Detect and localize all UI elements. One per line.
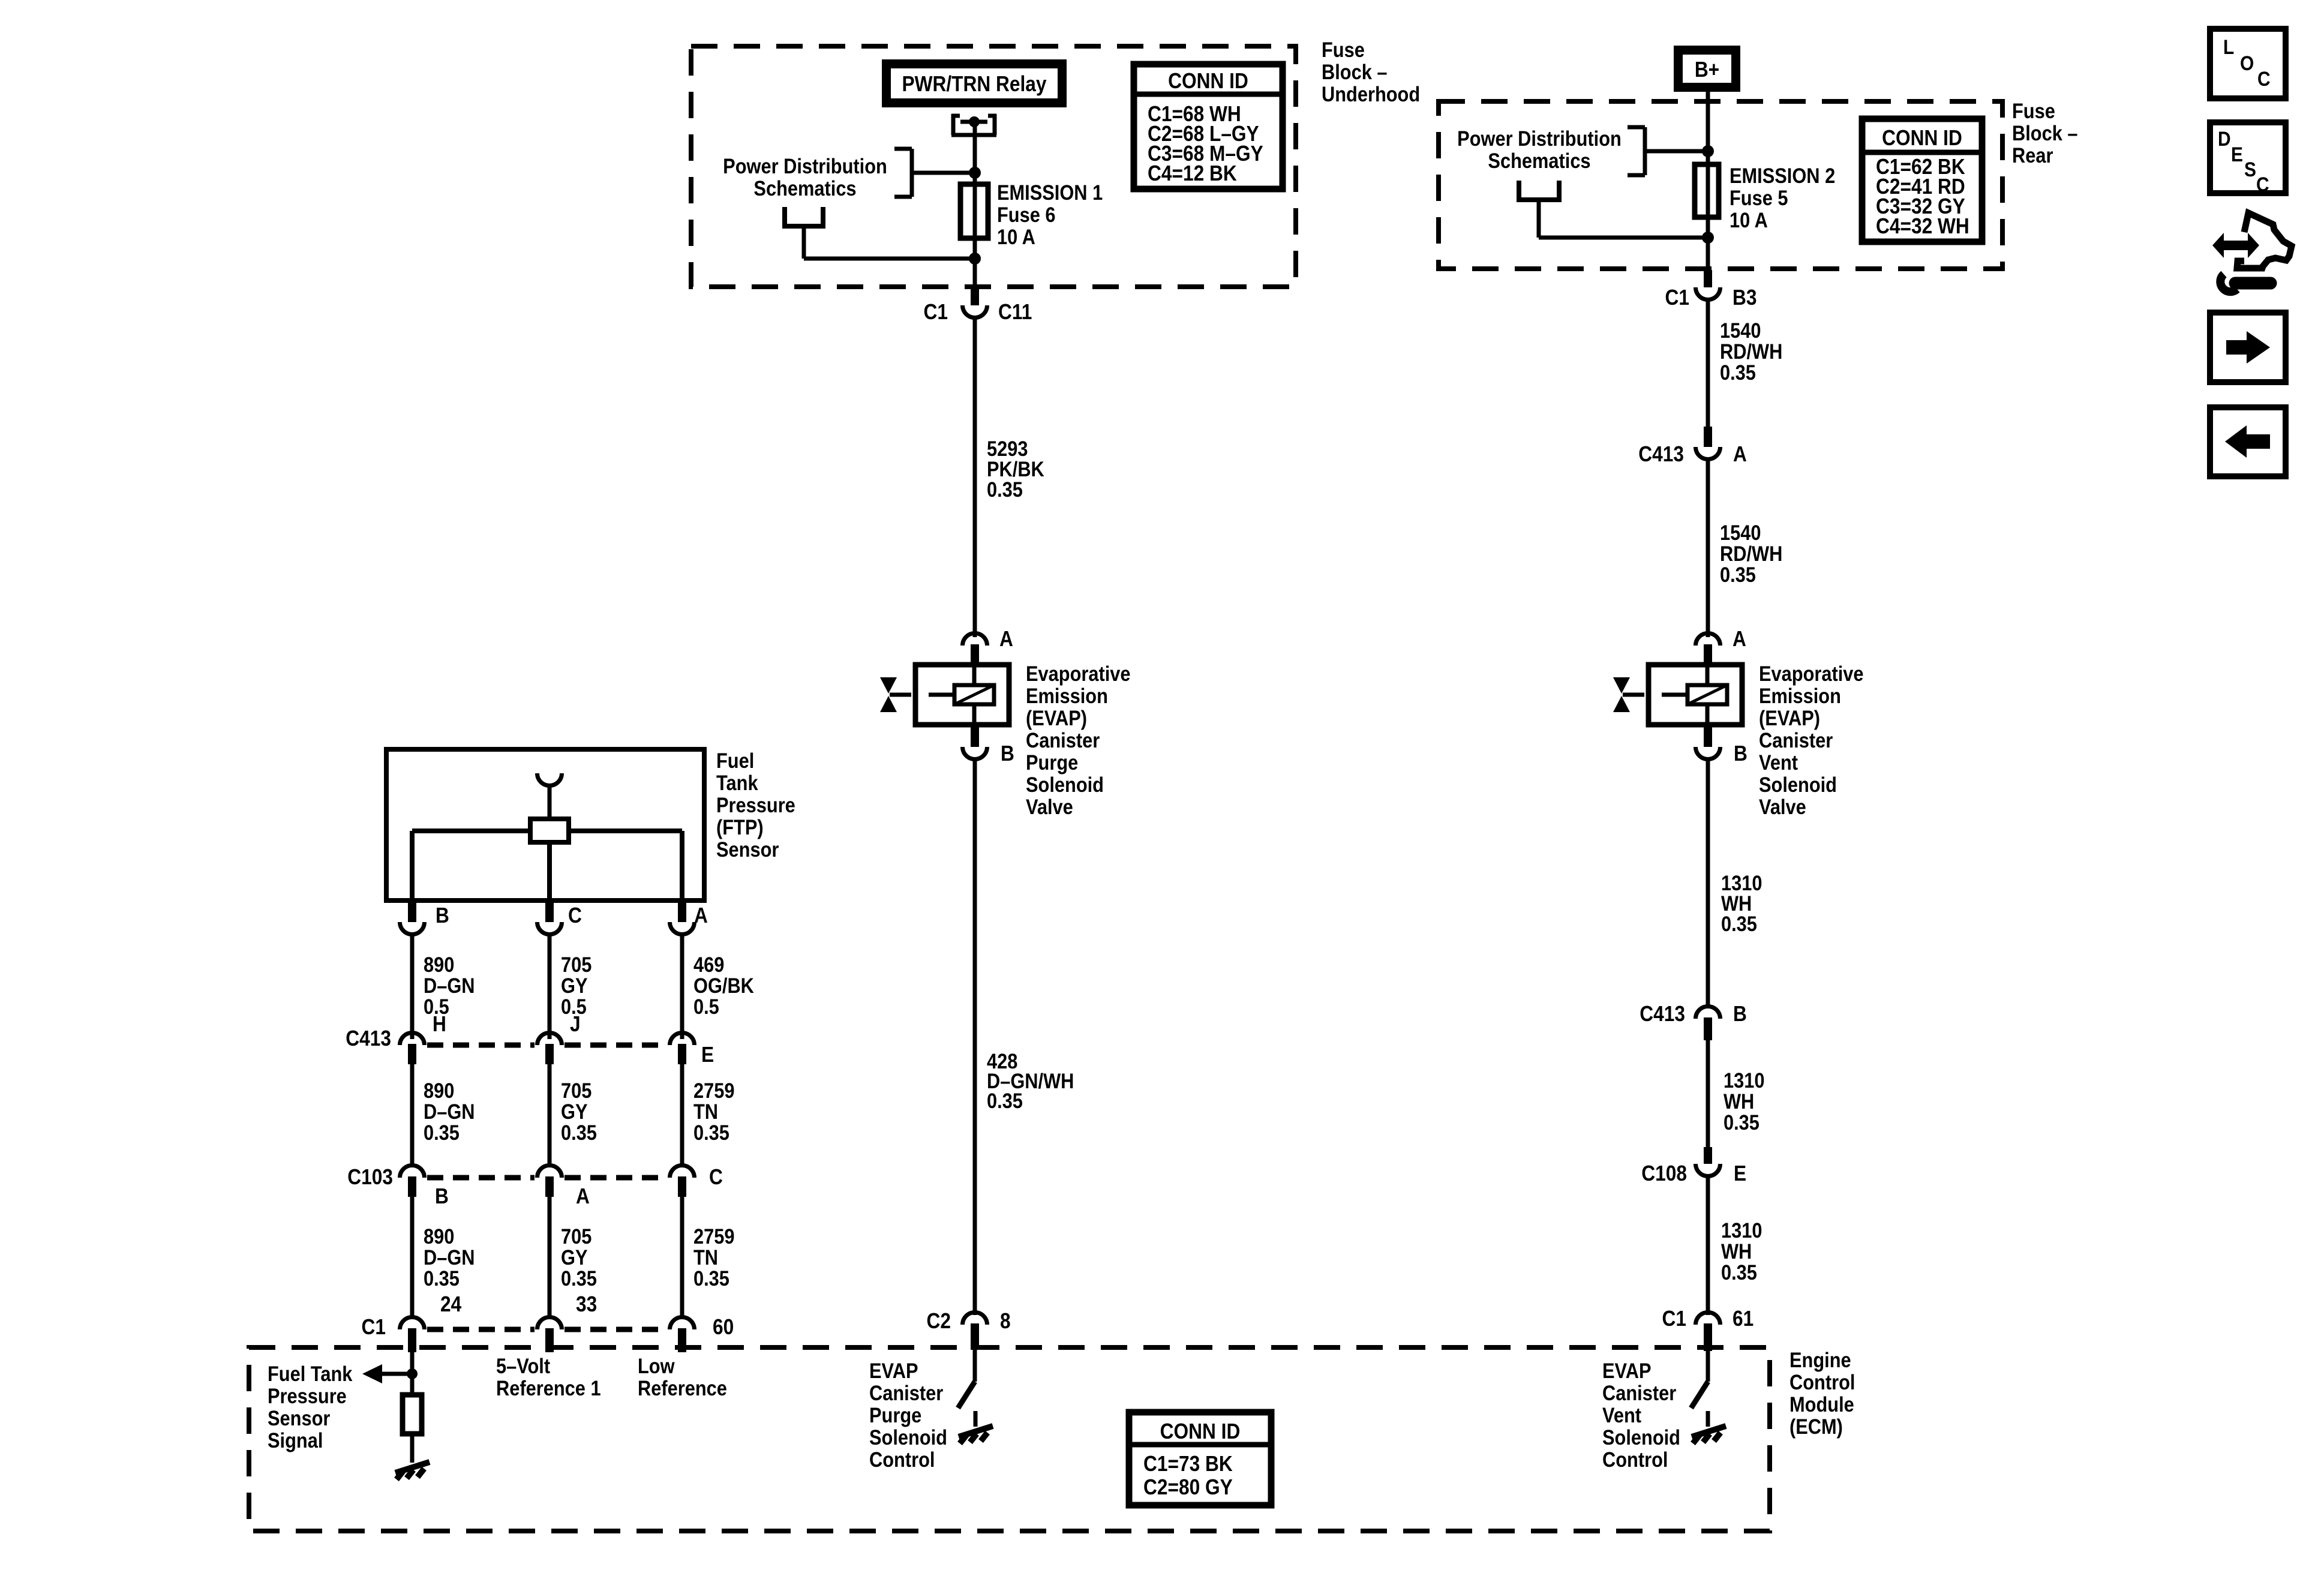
wire ftp C down [548,935,552,1039]
dashed link C103 row [427,1175,668,1181]
resistor in ecm [403,1395,422,1434]
wire H down [410,1064,415,1167]
connector C103 pin C [678,1176,686,1197]
fuse block - underhood dashed box [691,46,1296,287]
dashed link C413 row [427,1043,668,1048]
svg-text:C: C [2256,173,2269,196]
svg-text:C413: C413 [346,1026,391,1050]
svg-text:A: A [694,903,708,927]
svg-text:GY: GY [561,974,588,997]
svg-text:D–GN: D–GN [424,974,475,997]
switch vent control [1706,1350,1710,1382]
svg-text:WH: WH [1721,1239,1752,1263]
ftp internal connector arc [538,773,562,786]
svg-text:A: A [1733,442,1747,466]
svg-text:Valve: Valve [1759,795,1806,818]
connector C108/E [1704,1147,1712,1164]
svg-text:0.35: 0.35 [424,1266,460,1290]
svg-text:Low: Low [638,1354,675,1377]
svg-text:890: 890 [424,1079,454,1102]
svg-text:A: A [576,1184,590,1208]
svg-text:E: E [2231,143,2243,166]
svg-text:C: C [2257,67,2271,90]
svg-text:C: C [568,903,582,927]
ftp bridge right [569,828,682,833]
svg-text:C1: C1 [1662,1307,1686,1331]
connector C103 pin A [545,1176,554,1197]
svg-text:(FTP): (FTP) [716,815,764,839]
svg-text:Solenoid: Solenoid [1026,773,1104,796]
relay contact bracket [951,114,996,135]
svg-text:Vent: Vent [1759,751,1798,774]
svg-text:Pressure: Pressure [268,1384,347,1407]
signal arrow line [382,1372,412,1376]
EVAP vent solenoid valve box [1649,665,1742,725]
svg-text:Solenoid: Solenoid [1759,773,1837,796]
svg-text:O: O [2240,52,2254,74]
svg-text:890: 890 [424,953,454,976]
svg-text:B3: B3 [1733,286,1756,310]
svg-text:0.35: 0.35 [987,1089,1023,1112]
svg-text:C4=32 WH: C4=32 WH [1876,214,1969,238]
svg-text:Vent: Vent [1602,1403,1641,1427]
wire C413B to C108E [1706,1040,1710,1151]
dashed link C1 row [427,1327,668,1332]
svg-text:B: B [435,1184,449,1208]
svg-text:Valve: Valve [1026,795,1073,818]
ftp bridge left [412,828,530,833]
connector C1 pin 24 [408,1328,416,1352]
connector pin B ftp [408,899,416,922]
ftp resistor [530,819,569,842]
svg-text:Fuse: Fuse [1322,38,1365,61]
svg-text:Fuse 5: Fuse 5 [1730,186,1788,209]
svg-text:Schematics: Schematics [1488,149,1590,172]
svg-text:B: B [1001,742,1014,766]
svg-text:Control: Control [1789,1370,1855,1394]
wire B down2 [410,1197,415,1316]
wire J1 to bracket [912,171,975,175]
ftp center leg [547,842,552,898]
svg-text:H: H [433,1012,446,1036]
svg-text:Control: Control [869,1448,935,1471]
fuse EMISSION 1 [960,184,988,238]
svg-text:1310: 1310 [1724,1068,1764,1092]
svg-text:0.35: 0.35 [987,478,1023,501]
svg-text:1310: 1310 [1721,1218,1762,1242]
svg-text:Signal: Signal [268,1428,323,1452]
svg-text:Pressure: Pressure [716,793,795,816]
valve dash link vent [1623,693,1644,697]
wire ftp A down [680,935,684,1039]
svg-text:(EVAP): (EVAP) [1759,706,1820,730]
switch vent lower stub [1706,1411,1710,1427]
svg-text:Fuel: Fuel [716,749,754,772]
svg-text:(ECM): (ECM) [1789,1415,1843,1438]
wire relay to fuse [973,122,977,290]
svg-text:Fuel Tank: Fuel Tank [268,1362,353,1385]
svg-text:C2: C2 [927,1309,951,1333]
switch purge control [973,1350,977,1382]
svg-text:60: 60 [713,1315,734,1339]
ftp right leg [680,831,684,898]
svg-text:B: B [1733,1002,1747,1026]
svg-text:Tank: Tank [716,771,758,794]
svg-text:C11: C11 [998,300,1032,324]
svg-text:0.35: 0.35 [1721,912,1757,935]
svg-text:CONN ID: CONN ID [1168,69,1248,93]
icon LOC box [2210,29,2286,98]
svg-text:A: A [999,627,1013,651]
connector C1/C11 [971,288,979,305]
svg-text:1540: 1540 [1720,319,1761,342]
wire vent B to C413B [1706,760,1710,1008]
connector C1 pin 33 [545,1328,554,1352]
wire C413A to valve A [1706,460,1710,637]
ftp wiper wire [548,786,552,819]
svg-text:C4=12 BK: C4=12 BK [1148,161,1237,185]
svg-text:Emission: Emission [1759,684,1841,707]
junction dot signal [407,1368,418,1379]
svg-text:Canister: Canister [1026,728,1100,752]
svg-text:705: 705 [561,1079,591,1102]
svg-text:B: B [1734,742,1747,766]
icon car wrench [2212,233,2259,258]
relay PWR/TRN box [887,64,1062,103]
wire B3 to C413A [1706,301,1710,430]
svg-text:2759: 2759 [693,1224,734,1248]
ground purge [959,1426,993,1443]
svg-text:0.35: 0.35 [561,1121,597,1144]
svg-text:RD/WH: RD/WH [1720,542,1782,565]
junction dot J1 right [1702,145,1714,157]
wire E down [680,1064,684,1167]
svg-text:C413: C413 [1640,1002,1685,1026]
conn id table rear [1862,119,1982,242]
junction dot J2 left [969,253,981,265]
svg-text:E: E [1734,1161,1746,1185]
svg-text:Fuse: Fuse [2012,99,2055,122]
svg-text:C108: C108 [1641,1161,1687,1185]
wire C108E to C1-61 [1706,1177,1710,1315]
bracket power distribution 2 right [1517,181,1562,200]
bracket power distribution 1 left [894,149,912,197]
svg-text:S: S [2244,158,2256,181]
svg-text:Engine: Engine [1789,1348,1851,1371]
svg-text:TN: TN [693,1245,718,1269]
svg-text:CONN ID: CONN ID [1882,126,1962,150]
connector pin C ftp [545,899,554,922]
svg-text:Rear: Rear [2012,143,2053,167]
connector C413/A [1704,427,1712,447]
connector B vent valve [1704,724,1712,747]
connector C413 pin E [678,1044,686,1064]
svg-text:Canister: Canister [869,1381,943,1404]
svg-text:0.35: 0.35 [424,1121,460,1144]
bracket power distribution 1 right [1628,127,1645,175]
svg-text:C103: C103 [347,1165,393,1189]
svg-text:0.35: 0.35 [693,1266,729,1290]
svg-text:Module: Module [1789,1392,1854,1416]
svg-text:Purge: Purge [869,1403,921,1427]
svg-text:EVAP: EVAP [869,1359,918,1382]
svg-text:GY: GY [561,1245,588,1269]
svg-text:C1: C1 [1665,286,1689,310]
svg-text:Power Distribution: Power Distribution [1457,127,1622,150]
svg-text:Evaporative: Evaporative [1026,662,1131,685]
svg-text:61: 61 [1733,1307,1753,1331]
wire J1 to bracket right [1645,149,1708,154]
svg-text:705: 705 [561,1224,591,1248]
svg-text:OG/BK: OG/BK [693,974,754,997]
svg-text:Sensor: Sensor [716,837,779,861]
svg-text:Power Distribution: Power Distribution [723,154,887,178]
power node B+ box [1679,50,1736,88]
svg-text:890: 890 [424,1224,454,1248]
svg-text:C1: C1 [362,1315,386,1339]
svg-text:E: E [701,1043,714,1067]
svg-text:705: 705 [561,953,591,976]
connector C1 pin 60 [678,1328,686,1352]
svg-text:0.5: 0.5 [693,995,719,1018]
svg-text:0.35: 0.35 [1721,1260,1757,1284]
svg-text:D–GN: D–GN [424,1100,475,1123]
svg-text:Block –: Block – [1322,60,1388,83]
svg-text:Purge: Purge [1026,751,1078,774]
wire ftp B down [410,935,415,1039]
valve dash link purge [890,693,911,697]
icon DESC box [2210,122,2286,193]
svg-text:10 A: 10 A [997,225,1035,248]
conn id table ecm [1129,1412,1271,1505]
svg-text:PWR/TRN Relay: PWR/TRN Relay [902,72,1046,96]
connector C2/8 ECM [971,1323,979,1350]
svg-text:EVAP: EVAP [1602,1359,1652,1382]
svg-text:0.35: 0.35 [1724,1110,1759,1134]
svg-text:33: 33 [576,1292,597,1316]
svg-text:EMISSION 2: EMISSION 2 [1730,164,1835,187]
fuse block - rear dashed box [1439,101,2002,269]
connector A vent valve [1704,644,1712,666]
svg-text:CONN ID: CONN ID [1160,1419,1241,1443]
icon next arrow box [2210,313,2286,382]
fuel tank pressure sensor box [386,749,704,900]
svg-text:Schematics: Schematics [753,176,856,200]
wire resistor to ground [410,1434,415,1463]
connector C413/B [1704,1017,1712,1040]
svg-text:RD/WH: RD/WH [1720,340,1782,363]
svg-text:Evaporative: Evaporative [1759,662,1864,685]
svg-text:1540: 1540 [1720,521,1761,544]
connector C103 pin B [408,1176,416,1197]
connector A purge valve [971,644,979,666]
conn id table underhood [1134,64,1283,189]
connector B purge valve [971,724,979,747]
wire pin24 into ecm [410,1352,415,1395]
svg-text:2759: 2759 [693,1079,734,1102]
svg-text:469: 469 [693,953,724,976]
svg-text:Underhood: Underhood [1322,82,1420,106]
svg-text:C2=80 GY: C2=80 GY [1143,1475,1233,1499]
svg-text:D: D [2218,127,2231,150]
junction dot J1 left [969,167,981,179]
connector C413 pin J [545,1044,554,1064]
svg-text:10 A: 10 A [1730,208,1768,232]
svg-text:Block –: Block – [2012,121,2078,145]
svg-text:Reference: Reference [638,1376,727,1400]
EVAP purge solenoid valve box [915,665,1009,725]
ground vent [1692,1426,1726,1443]
fuse EMISSION 2 [1695,164,1719,217]
svg-text:0.35: 0.35 [1720,563,1756,586]
svg-text:D–GN: D–GN [424,1245,475,1269]
svg-text:C413: C413 [1638,442,1684,466]
engine control module dashed box [249,1347,1770,1531]
svg-text:0.35: 0.35 [1720,361,1756,384]
svg-text:5–Volt: 5–Volt [496,1354,550,1377]
wire bracket2 to J2 right [1537,200,1541,238]
svg-text:Solenoid: Solenoid [1602,1425,1680,1449]
bracket power distribution 2 left [782,207,825,226]
svg-text:Control: Control [1602,1448,1668,1471]
signal arrow head [362,1364,382,1383]
wire C11 to valve A [973,319,977,637]
svg-text:WH: WH [1724,1089,1754,1113]
connector C1/B3 [1704,270,1712,287]
svg-text:Canister: Canister [1759,728,1833,752]
wire bracket2 to J2 left [802,226,806,259]
valve symbol bowtie purge [880,677,897,694]
svg-text:Emission: Emission [1026,684,1108,707]
svg-text:(EVAP): (EVAP) [1026,706,1087,730]
wire purge B to C2 [973,760,977,1315]
svg-text:Canister: Canister [1602,1381,1676,1404]
svg-text:EMISSION 1: EMISSION 1 [997,181,1103,204]
connector C413 pin H [408,1044,416,1064]
ground ftp signal [395,1462,430,1479]
svg-text:Fuse 6: Fuse 6 [997,203,1056,226]
wire A down2 [548,1197,552,1316]
svg-text:B: B [436,903,449,927]
svg-text:B+: B+ [1695,58,1719,82]
ftp left leg [410,831,415,898]
connector pin A ftp [678,899,686,922]
switch purge lower stub [974,1411,978,1427]
svg-text:Sensor: Sensor [268,1406,331,1430]
svg-text:C: C [709,1165,723,1189]
connector C1/61 ECM [1704,1323,1712,1351]
svg-text:Solenoid: Solenoid [869,1425,947,1449]
svg-text:TN: TN [693,1100,718,1123]
svg-text:24: 24 [440,1292,461,1316]
svg-text:C1=73 BK: C1=73 BK [1143,1452,1233,1476]
wire B+ to fuse [1706,91,1710,272]
svg-text:Reference 1: Reference 1 [496,1376,601,1400]
svg-text:0.35: 0.35 [561,1266,597,1290]
svg-text:GY: GY [561,1100,588,1123]
svg-text:A: A [1733,627,1746,651]
svg-text:L: L [2223,35,2234,58]
icon prev arrow box [2210,407,2286,476]
svg-text:J: J [570,1012,581,1036]
svg-text:C1: C1 [924,300,948,324]
valve symbol bowtie vent [1613,677,1630,694]
wire C down2 [680,1197,684,1316]
wire J down [548,1064,552,1167]
svg-text:8: 8 [1000,1309,1011,1333]
svg-text:0.35: 0.35 [693,1121,729,1144]
junction dot J2 right [1702,232,1714,244]
